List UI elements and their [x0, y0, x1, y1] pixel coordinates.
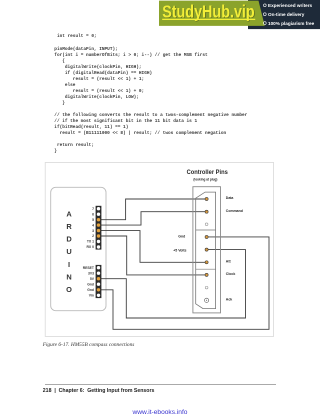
bottom pin header strip [96, 265, 102, 298]
Arduino board box [51, 187, 106, 310]
connector pin 2 Command [205, 210, 208, 213]
Arduino pin Gnd 2 [97, 288, 100, 291]
connector pin 9 Ack [205, 298, 209, 302]
connector pin 1 Data [205, 197, 208, 200]
svg-text:2: 2 [92, 234, 94, 238]
Ack pin center dot [206, 300, 207, 301]
connector pin 3 unused [205, 223, 208, 226]
Arduino pin 4 [97, 223, 100, 226]
connector pin 6 Att [205, 261, 208, 264]
svg-text:Data: Data [226, 196, 234, 200]
svg-text:A: A [66, 209, 72, 218]
Arduino pin Gnd 1 [97, 283, 100, 286]
svg-text:RESET: RESET [83, 266, 95, 270]
svg-text:Controller Pins: Controller Pins [187, 169, 228, 176]
svg-text:Gnd: Gnd [87, 282, 94, 286]
green parallelogram [159, 1, 265, 26]
code block line 1 [54, 34, 96, 39]
connector pin 8 unused [205, 286, 208, 289]
wire 5V to +5 Volts [101, 250, 246, 318]
svg-text:Gnd: Gnd [87, 288, 94, 292]
svg-text:3V3: 3V3 [88, 271, 94, 275]
svg-text:7: 7 [92, 207, 94, 211]
connector pin 4 Gnd [205, 235, 208, 238]
connector pin 7 Clock [205, 273, 208, 276]
footer rule [45, 383, 276, 386]
svg-text:D: D [66, 235, 72, 244]
svg-text:R: R [66, 222, 72, 231]
svg-text:5V: 5V [90, 277, 95, 281]
Arduino pin 3 [97, 229, 100, 232]
connector divider 2 [196, 268, 216, 270]
svg-text:I: I [68, 260, 70, 269]
svg-text:+5 Volts: +5 Volts [173, 249, 186, 253]
wire pin4 to Command [101, 212, 206, 225]
connector divider 1 [196, 229, 216, 231]
svg-text:O: O [66, 285, 72, 294]
svg-text:RX 0: RX 0 [86, 245, 94, 249]
svg-text:Att: Att [226, 260, 232, 264]
figure frame [45, 163, 273, 337]
wire pin2 to Clock [101, 236, 206, 275]
Arduino pin Vin [97, 294, 100, 297]
footer text [43, 388, 155, 394]
www link [0, 409, 320, 416]
svg-text:Clock: Clock [226, 272, 236, 276]
svg-text:4: 4 [92, 223, 94, 227]
svg-text:Ack: Ack [226, 298, 232, 302]
wire pin3 to Att [101, 231, 206, 263]
wire pin5 to Data [101, 199, 206, 220]
svg-text:6: 6 [92, 212, 94, 216]
top pin header strip [96, 206, 102, 250]
Arduino pin 6 [97, 213, 100, 216]
svg-text:Gnd: Gnd [178, 234, 185, 238]
svg-text:U: U [66, 247, 71, 256]
connector shape [196, 192, 216, 309]
svg-text:N: N [66, 272, 71, 281]
svg-text:3: 3 [92, 229, 94, 233]
svg-text:Vin: Vin [89, 294, 94, 298]
wire Gnd to Gnd [101, 237, 269, 329]
Arduino pin 7 [97, 207, 100, 210]
navy panel [248, 0, 320, 29]
Arduino pin 2 [97, 234, 100, 237]
Arduino pin TX 1 [97, 240, 100, 243]
svg-text:(looking at plug): (looking at plug) [193, 176, 218, 181]
Arduino pin 5 [97, 218, 100, 221]
connector pin 5 +5 Volts [205, 248, 208, 251]
Arduino pin 5V [97, 277, 100, 280]
bullet icons [263, 4, 266, 7]
svg-text:Command: Command [226, 209, 243, 213]
StudyHub banner [0, 0, 320, 32]
code block 3 [54, 113, 247, 154]
figure caption [43, 342, 135, 348]
Arduino pin RESET [97, 266, 100, 269]
Arduino pin 3V3 [97, 272, 100, 275]
svg-text:5: 5 [92, 218, 94, 222]
code block 2 [54, 47, 207, 107]
controller outer box [193, 187, 221, 313]
svg-text:TX 1: TX 1 [87, 240, 94, 244]
Arduino pin RX 0 [97, 245, 100, 248]
